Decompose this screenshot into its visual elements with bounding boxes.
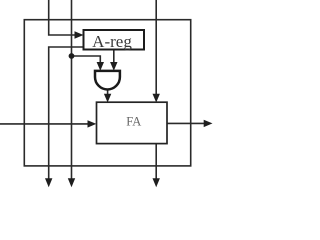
- svg-text:FA: FA: [126, 114, 141, 128]
- svg-text:A-reg: A-reg: [92, 32, 132, 51]
